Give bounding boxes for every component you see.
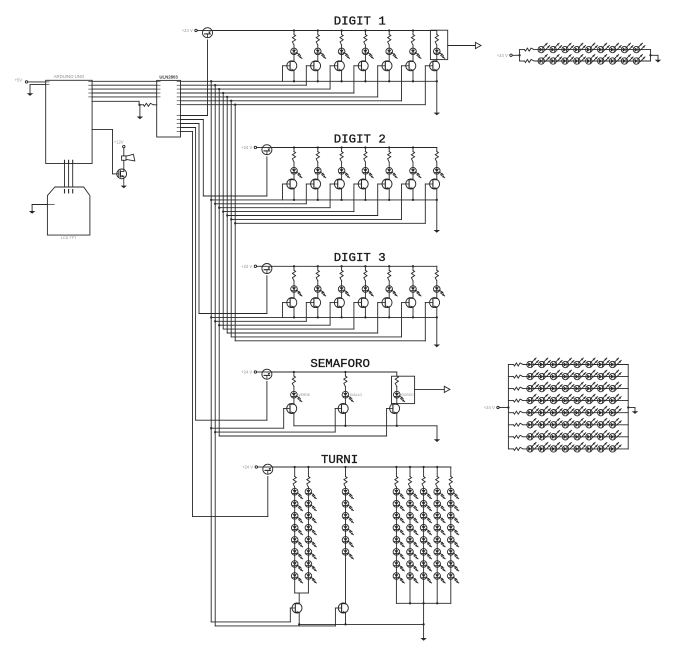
svg-text:ROSSO: ROSSO xyxy=(401,393,414,397)
svg-text:ARDUINO UNO: ARDUINO UNO xyxy=(54,74,85,79)
svg-text:+24 V: +24 V xyxy=(484,405,495,410)
svg-text:+24 V: +24 V xyxy=(241,145,252,150)
svg-text:+24 V: +24 V xyxy=(182,28,193,33)
svg-text:+24 V: +24 V xyxy=(497,53,508,58)
svg-text:+24 V: +24 V xyxy=(241,264,252,269)
svg-text:DIGIT 2: DIGIT 2 xyxy=(334,133,386,147)
svg-text:DIGIT 3: DIGIT 3 xyxy=(334,251,386,265)
svg-text:ULN2803: ULN2803 xyxy=(159,74,178,79)
svg-text:+24 V: +24 V xyxy=(241,370,252,375)
svg-text:GIALLO: GIALLO xyxy=(350,393,363,397)
svg-text:DIGIT 1: DIGIT 1 xyxy=(334,15,386,29)
svg-text:VERDE: VERDE xyxy=(298,393,310,397)
svg-text:+5V: +5V xyxy=(15,78,23,83)
svg-text:TURNI: TURNI xyxy=(321,453,358,467)
svg-text:+24 V: +24 V xyxy=(242,465,253,470)
svg-text:+12V: +12V xyxy=(114,140,124,145)
svg-text:LCD TFT: LCD TFT xyxy=(61,236,77,240)
svg-text:SEMAFORO: SEMAFORO xyxy=(310,357,370,371)
